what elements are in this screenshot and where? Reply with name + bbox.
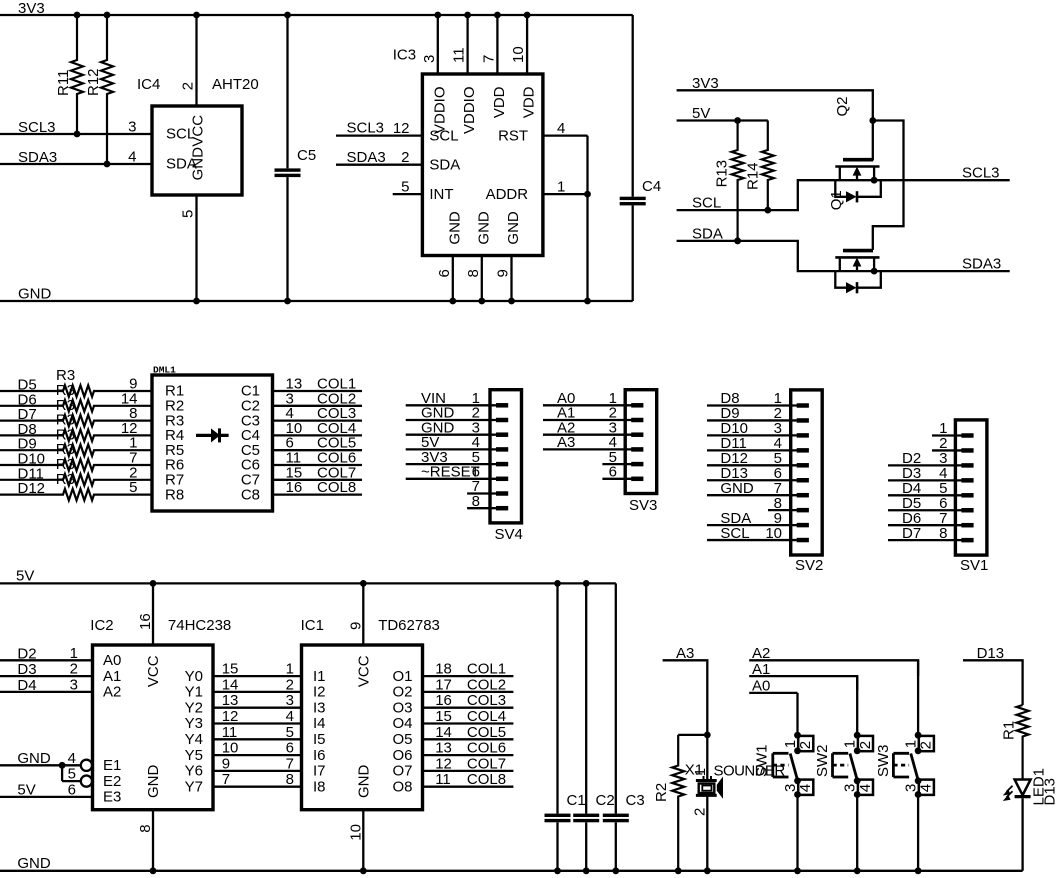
svg-text:SV2: SV2	[795, 557, 823, 574]
DML1 pin R7	[165, 472, 184, 489]
node GND (bottom rail)	[0, 855, 1023, 872]
IC3 pin 7 VDD	[480, 15, 508, 118]
svg-text:~RESET: ~RESET	[421, 464, 480, 481]
resistor array R3	[56, 367, 75, 384]
svg-text:4: 4	[918, 784, 935, 792]
DML1 pin C6	[241, 457, 260, 474]
DML1 pin C2	[241, 398, 260, 415]
IC3 pin 6 GND	[436, 211, 464, 304]
svg-text:Y1: Y1	[185, 684, 203, 701]
svg-text:O4: O4	[392, 715, 412, 732]
svg-text:10: 10	[347, 824, 364, 841]
IC2 pin 9 Y6 wire to IC1 I7	[185, 755, 326, 779]
svg-text:VCC: VCC	[355, 655, 372, 687]
svg-text:1: 1	[70, 645, 78, 662]
svg-text:GND: GND	[720, 480, 754, 497]
svg-text:SCL: SCL	[692, 195, 721, 212]
IC4 pin 5 GND	[180, 147, 207, 305]
svg-text:GND: GND	[355, 765, 372, 799]
svg-text:5: 5	[68, 766, 76, 783]
svg-text:RST: RST	[498, 127, 528, 144]
svg-text:3: 3	[421, 55, 438, 63]
DML1 pin C7	[241, 472, 260, 489]
capacitor C4	[620, 15, 661, 301]
svg-text:SCL: SCL	[429, 127, 458, 144]
wire COL7	[273, 464, 363, 481]
switch SW1	[754, 693, 815, 874]
IC1 pin 14 O5 wire COL5	[392, 724, 513, 748]
IC2 pin 3 A2, wire D4	[0, 676, 121, 700]
svg-text:A0: A0	[103, 652, 121, 669]
IC1 pin 12 O7 wire COL7	[392, 755, 513, 779]
IC3 pin 12 SCL, wire SCL3	[336, 120, 459, 145]
svg-text:R14: R14	[745, 162, 762, 190]
IC1 pin 11 O8 wire COL8	[392, 771, 513, 795]
IC3 pin 10 VDD	[510, 15, 538, 118]
svg-text:I2: I2	[313, 684, 326, 701]
svg-text:I8: I8	[313, 778, 326, 795]
junction dots on 3V3 rail	[74, 12, 531, 19]
node A3 wire	[663, 645, 711, 739]
svg-text:GND: GND	[446, 211, 463, 245]
svg-text:C3: C3	[626, 792, 645, 809]
svg-text:I5: I5	[313, 731, 326, 748]
svg-text:E1: E1	[103, 757, 121, 774]
DML1 pin R2	[165, 398, 184, 415]
svg-text:SV4: SV4	[495, 526, 523, 543]
svg-text:C1: C1	[567, 792, 586, 809]
node GND (top rail)	[0, 286, 633, 303]
IC2 pin 15 Y0 wire to IC1 I1	[185, 661, 326, 685]
IC2 pin 11 Y4 wire to IC1 I5	[185, 724, 326, 748]
svg-text:GND: GND	[505, 211, 522, 245]
resistor R3 element 1	[0, 376, 152, 400]
DML1 pin R5	[165, 442, 184, 459]
DML1 pin R1	[165, 383, 184, 400]
wire COL3	[273, 405, 363, 422]
svg-text:COL2: COL2	[467, 676, 506, 693]
svg-text:O7: O7	[392, 763, 412, 780]
node D9 wire	[18, 436, 37, 453]
IC3 pin 3 VDDIO	[421, 15, 449, 134]
resistor R3 element 7	[0, 464, 152, 488]
svg-text:COL3: COL3	[467, 692, 506, 709]
IC2 pin 6 E3, wire 5V	[0, 781, 121, 805]
buzzer X1 SOUNDER	[685, 735, 786, 874]
svg-text:4: 4	[286, 708, 294, 725]
svg-text:Q1: Q1	[828, 190, 845, 210]
IC2 pin 16 VCC	[137, 583, 162, 687]
svg-text:8: 8	[137, 824, 154, 832]
svg-text:E3: E3	[103, 789, 121, 806]
svg-text:COL8: COL8	[317, 479, 356, 496]
svg-text:D13: D13	[1042, 778, 1059, 806]
wire COL2	[273, 390, 363, 407]
IC1 pin 13 O6 wire COL6	[392, 740, 513, 764]
IC1 pin 16 O3 wire COL3	[392, 692, 513, 716]
IC2 pin 2 A1, wire D3	[0, 661, 121, 685]
svg-text:10: 10	[510, 46, 527, 63]
IC1 pin 15 O4 wire COL4	[392, 708, 513, 732]
IC1 GND rotated label	[355, 765, 372, 799]
svg-text:GND: GND	[190, 147, 207, 181]
IC2 pin 14 Y1 wire to IC1 I2	[185, 676, 326, 700]
svg-text:AHT20: AHT20	[212, 76, 259, 93]
svg-text:2: 2	[180, 82, 197, 90]
DML1 pin R4	[165, 427, 184, 444]
connector SV4	[406, 390, 523, 543]
svg-text:SDA: SDA	[429, 156, 460, 173]
node D5 wire	[18, 377, 37, 394]
IC1 pin 18 O1 wire COL1	[392, 661, 513, 685]
svg-text:Q2: Q2	[834, 96, 851, 116]
IC2 pin 10 Y5 wire to IC1 I6	[185, 740, 326, 764]
svg-text:VDD: VDD	[491, 86, 508, 118]
svg-text:3: 3	[286, 692, 294, 709]
svg-text:SDA3: SDA3	[347, 149, 386, 166]
node SDA3 (left)	[0, 149, 152, 166]
svg-text:2: 2	[286, 676, 294, 693]
capacitor C2	[573, 583, 614, 874]
IC4 pin 2 VCC	[180, 15, 207, 147]
svg-text:Y7: Y7	[185, 778, 203, 795]
svg-text:O6: O6	[392, 747, 412, 764]
svg-text:C5: C5	[297, 147, 316, 164]
capacitor C1	[545, 583, 586, 874]
svg-text:8: 8	[286, 771, 294, 788]
svg-text:IC3: IC3	[393, 47, 416, 64]
svg-text:R8: R8	[165, 486, 184, 503]
svg-text:O3: O3	[392, 699, 412, 716]
IC3 pin 9 GND	[495, 211, 523, 304]
svg-text:2: 2	[918, 741, 935, 749]
svg-text:R11: R11	[55, 70, 72, 96]
svg-text:4: 4	[797, 784, 814, 792]
svg-text:2: 2	[857, 741, 874, 749]
svg-text:C4: C4	[642, 178, 661, 195]
svg-text:SCL3: SCL3	[347, 120, 385, 137]
IC1 pin 9 VCC	[347, 583, 372, 687]
svg-text:GND: GND	[475, 211, 492, 245]
DML1 pin C3	[241, 412, 260, 429]
DML1 pin C5	[241, 442, 260, 459]
svg-text:Y0: Y0	[185, 668, 203, 685]
IC3 pin 2 SDA, wire SDA3	[336, 149, 460, 173]
svg-text:6: 6	[436, 269, 453, 277]
DML1 pin R3	[165, 412, 184, 429]
svg-text:O1: O1	[392, 668, 412, 685]
resistor R12	[85, 15, 113, 167]
IC3 pin 11 VDDIO	[451, 15, 479, 134]
svg-text:COL5: COL5	[467, 724, 506, 741]
svg-text:GND: GND	[17, 855, 51, 872]
node D12 wire	[18, 480, 46, 497]
IC2 pin 4 E1 (inverted)	[68, 750, 122, 774]
IC2 pin 8 GND	[137, 810, 156, 874]
svg-text:3: 3	[70, 676, 78, 693]
node SCL3 (right)	[835, 165, 1009, 184]
svg-text:SDA3: SDA3	[962, 255, 1001, 272]
svg-text:16: 16	[137, 613, 154, 630]
DML1 pin C4	[241, 427, 260, 444]
switch SW3	[875, 660, 935, 874]
svg-text:I3: I3	[313, 699, 326, 716]
wire RST/ADDR to GND	[584, 136, 591, 305]
svg-text:2: 2	[797, 741, 814, 749]
svg-text:O5: O5	[392, 731, 412, 748]
svg-text:1: 1	[286, 661, 294, 678]
svg-text:I6: I6	[313, 747, 326, 764]
svg-text:VCC: VCC	[145, 655, 162, 687]
svg-text:Y6: Y6	[185, 763, 203, 780]
svg-text:O2: O2	[392, 684, 412, 701]
wire COL1	[273, 376, 363, 393]
resistor R1	[1001, 705, 1029, 780]
svg-text:5: 5	[286, 724, 294, 741]
node D6 wire	[18, 391, 37, 408]
IC2 pin 13 Y2 wire to IC1 I3	[185, 692, 326, 716]
svg-text:9: 9	[347, 622, 364, 630]
svg-text:Y3: Y3	[185, 715, 203, 732]
svg-text:SV1: SV1	[960, 557, 988, 574]
svg-text:SW3: SW3	[875, 744, 892, 777]
DML1 pin C8	[241, 486, 260, 503]
IC2 pin 12 Y3 wire to IC1 I4	[185, 708, 326, 732]
connector SV2	[707, 390, 823, 574]
svg-text:COL4: COL4	[467, 708, 506, 725]
svg-text:VDDIO: VDDIO	[461, 86, 478, 134]
svg-text:Y5: Y5	[185, 747, 203, 764]
svg-text:COL8: COL8	[467, 771, 506, 788]
svg-text:I7: I7	[313, 763, 326, 780]
resistor R13	[714, 121, 744, 245]
svg-text:IC2: IC2	[90, 617, 113, 634]
svg-text:2: 2	[70, 661, 78, 678]
svg-text:4: 4	[857, 784, 874, 792]
node SDA wire to Q1	[677, 225, 836, 271]
wire A3 to R2	[678, 734, 707, 736]
svg-text:GND: GND	[145, 765, 162, 799]
svg-text:6: 6	[286, 740, 294, 757]
wire COL8	[273, 479, 363, 496]
IC3 pin 5 INT	[393, 179, 454, 203]
svg-text:74HC238: 74HC238	[168, 617, 231, 634]
driver IC1 TD62783 body	[301, 617, 440, 810]
DML1 pin R8	[165, 486, 184, 503]
node D8 wire	[18, 421, 37, 438]
svg-text:VCC: VCC	[190, 115, 207, 147]
svg-text:6: 6	[68, 781, 76, 798]
svg-text:C2: C2	[596, 792, 615, 809]
svg-text:SV3: SV3	[629, 497, 657, 514]
svg-text:E2: E2	[103, 773, 121, 790]
svg-text:2: 2	[692, 808, 709, 816]
svg-text:SW2: SW2	[814, 744, 831, 777]
node D10 wire	[18, 451, 46, 468]
DML1 pin R6	[165, 457, 184, 474]
IC3 pin 8 GND	[465, 211, 493, 304]
svg-text:4: 4	[128, 149, 136, 166]
capacitor C5	[275, 15, 317, 304]
resistor R11	[55, 15, 83, 137]
IC1 pin 17 O2 wire COL2	[392, 676, 513, 700]
DML1 pin C1	[241, 383, 260, 400]
wire GND to E1/E2	[0, 750, 81, 781]
svg-text:IC1: IC1	[301, 617, 324, 634]
DML1 internal diode symbol	[196, 428, 229, 442]
svg-text:R13: R13	[714, 160, 731, 188]
svg-text:Y2: Y2	[185, 699, 203, 716]
node D13 wire	[963, 645, 1023, 705]
resistor R3 element 8	[0, 479, 152, 500]
switch SW2	[814, 676, 874, 874]
IC U-IC4 AHT20 body	[137, 76, 259, 195]
node SCL3 (left)	[0, 119, 152, 136]
svg-text:3: 3	[128, 119, 136, 136]
transistor Q2 (upper MOSFET)	[834, 96, 881, 202]
IC2 GND rotated label	[145, 765, 162, 799]
svg-text:Y4: Y4	[185, 731, 203, 748]
svg-text:8: 8	[465, 269, 482, 277]
node A0 wire to SW1	[749, 678, 797, 695]
svg-text:O8: O8	[392, 778, 412, 795]
node SCL wire to Q2	[677, 180, 836, 211]
transistor Q1 (lower MOSFET)	[828, 190, 881, 293]
resistor R3 element 6	[0, 450, 152, 474]
svg-text:COL6: COL6	[467, 740, 506, 757]
svg-text:C8: C8	[241, 486, 260, 503]
svg-text:SCL3: SCL3	[962, 165, 1000, 182]
svg-text:VDD: VDD	[521, 86, 538, 118]
svg-text:11: 11	[451, 47, 468, 63]
IC U-IC3 body	[393, 47, 543, 256]
wire COL4	[273, 420, 363, 437]
wire COL5	[273, 435, 363, 452]
svg-text:5V: 5V	[16, 568, 34, 585]
svg-text:SCL: SCL	[720, 525, 749, 542]
svg-text:A3: A3	[557, 434, 575, 451]
node D7 wire	[18, 406, 37, 423]
svg-text:1: 1	[842, 740, 859, 748]
resistor R3 element 3	[0, 405, 152, 429]
IC2 pin 5 E2 (inverted)	[68, 766, 122, 790]
resistor R3 element 5	[0, 435, 152, 459]
svg-text:7: 7	[286, 755, 294, 772]
node A1 wire to SW2	[749, 661, 857, 690]
node 5V (bottom rail)	[0, 568, 616, 587]
LED matrix DML1 body	[152, 365, 273, 512]
node SDA3 (right)	[835, 255, 1009, 274]
svg-text:COL1: COL1	[467, 661, 506, 678]
svg-text:SW1: SW1	[754, 744, 771, 777]
resistor R3 element 4	[0, 420, 152, 444]
svg-text:R2: R2	[653, 783, 670, 802]
logic IC2 74HC238 body	[90, 617, 231, 810]
svg-text:TD62783: TD62783	[378, 617, 440, 634]
resistor R14	[745, 121, 774, 214]
svg-text:A2: A2	[103, 684, 121, 701]
svg-text:I1: I1	[313, 668, 326, 685]
svg-text:ADDR: ADDR	[486, 186, 529, 203]
svg-text:COL7: COL7	[467, 755, 506, 772]
svg-text:DML1: DML1	[153, 365, 176, 376]
LED LED1 / D13	[1003, 768, 1059, 871]
wire COL6	[273, 450, 363, 467]
node A2 wire to SW3	[749, 645, 918, 676]
IC3 pin 4 RST	[498, 120, 587, 144]
connector SV1	[888, 420, 988, 574]
IC4 pin 4 SDA	[128, 149, 197, 173]
resistor R2	[653, 735, 684, 874]
svg-text:D7: D7	[902, 525, 921, 542]
svg-text:A1: A1	[103, 668, 121, 685]
node D11 wire	[18, 465, 44, 482]
svg-text:INT: INT	[429, 186, 453, 203]
IC3 pin 1 ADDR	[486, 179, 588, 203]
resistor R3 element 2	[0, 390, 152, 414]
wire 3V3 gate feed	[869, 117, 903, 250]
svg-text:5: 5	[180, 210, 197, 218]
svg-text:R12: R12	[85, 68, 102, 96]
capacitor C3	[603, 583, 645, 874]
svg-text:5: 5	[129, 479, 137, 496]
svg-text:IC4: IC4	[137, 76, 160, 93]
IC2 pin 7 Y7 wire to IC1 I8	[185, 771, 326, 795]
svg-text:9: 9	[495, 269, 512, 277]
svg-text:I4: I4	[313, 715, 326, 732]
IC1 pin 10 GND	[347, 810, 366, 874]
svg-text:7: 7	[480, 55, 497, 63]
connector SV3	[543, 390, 657, 514]
node 5V (shifter)	[677, 105, 768, 124]
svg-text:1: 1	[902, 740, 919, 748]
node 3V3 (shifter)	[677, 75, 873, 121]
svg-text:4: 4	[68, 750, 76, 767]
svg-text:1: 1	[782, 740, 799, 748]
IC4 pin 3 SCL	[128, 119, 195, 143]
node 3V3 (top rail)	[0, 0, 633, 17]
IC2 pin 1 A0, wire D2	[0, 645, 121, 669]
